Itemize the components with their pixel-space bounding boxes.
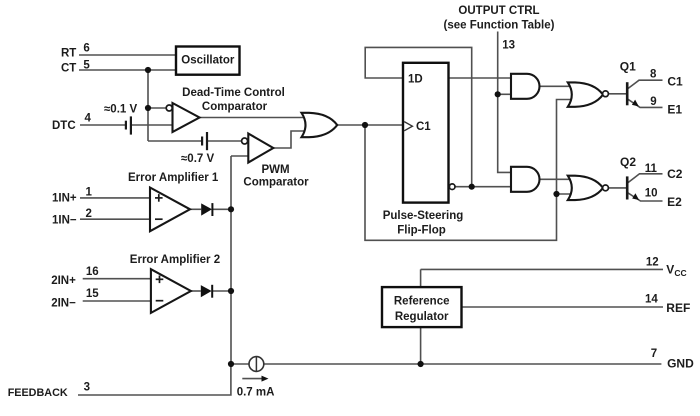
svg-text:5: 5 <box>83 59 90 71</box>
svg-text:12: 12 <box>646 257 659 269</box>
svg-text:Regulator: Regulator <box>395 311 449 323</box>
svg-text:14: 14 <box>645 294 658 306</box>
svg-text:(see Function Table): (see Function Table) <box>444 19 555 31</box>
svg-text:≈0.7 V: ≈0.7 V <box>181 153 214 165</box>
svg-text:FEEDBACK: FEEDBACK <box>8 387 68 399</box>
svg-text:C1: C1 <box>667 75 683 89</box>
svg-text:7: 7 <box>651 348 657 360</box>
svg-text:DTC: DTC <box>52 120 76 132</box>
svg-text:E1: E1 <box>667 103 682 117</box>
svg-text:CT: CT <box>61 62 76 74</box>
svg-text:1IN−: 1IN− <box>52 215 77 227</box>
svg-text:Comparator: Comparator <box>202 101 268 113</box>
svg-text:15: 15 <box>86 288 99 300</box>
svg-text:C2: C2 <box>667 167 683 181</box>
svg-text:8: 8 <box>650 69 657 81</box>
svg-text:≈0.1 V: ≈0.1 V <box>104 104 137 116</box>
svg-text:E2: E2 <box>667 195 682 209</box>
svg-text:0.7 mA: 0.7 mA <box>237 386 275 398</box>
svg-text:Comparator: Comparator <box>243 177 309 189</box>
svg-text:Error Amplifier 2: Error Amplifier 2 <box>130 254 220 266</box>
svg-text:Oscillator: Oscillator <box>181 55 235 67</box>
svg-text:1: 1 <box>86 186 93 198</box>
svg-text:4: 4 <box>85 112 92 124</box>
svg-text:1D: 1D <box>408 74 423 86</box>
svg-text:9: 9 <box>650 96 656 108</box>
svg-text:Dead-Time Control: Dead-Time Control <box>182 87 285 99</box>
svg-text:2IN+: 2IN+ <box>51 275 76 287</box>
svg-text:6: 6 <box>83 43 89 55</box>
svg-text:OUTPUT CTRL: OUTPUT CTRL <box>458 5 539 17</box>
svg-text:RT: RT <box>61 47 76 59</box>
svg-text:16: 16 <box>86 266 99 278</box>
svg-text:10: 10 <box>645 188 658 200</box>
svg-text:GND: GND <box>667 357 694 371</box>
svg-text:3: 3 <box>84 382 90 394</box>
svg-text:Q1: Q1 <box>620 59 636 73</box>
svg-text:Flip-Flop: Flip-Flop <box>397 225 446 237</box>
svg-text:2: 2 <box>86 208 92 220</box>
svg-text:PWM: PWM <box>261 164 289 176</box>
svg-text:REF: REF <box>666 301 690 315</box>
svg-text:Pulse-Steering: Pulse-Steering <box>383 210 464 222</box>
svg-text:Q2: Q2 <box>620 155 636 169</box>
svg-text:Reference: Reference <box>394 296 450 308</box>
svg-text:13: 13 <box>502 40 515 52</box>
svg-text:2IN−: 2IN− <box>51 297 76 309</box>
svg-text:11: 11 <box>645 163 658 175</box>
svg-text:Error Amplifier 1: Error Amplifier 1 <box>128 172 219 184</box>
svg-text:1IN+: 1IN+ <box>52 193 77 205</box>
svg-text:C1: C1 <box>416 121 431 133</box>
